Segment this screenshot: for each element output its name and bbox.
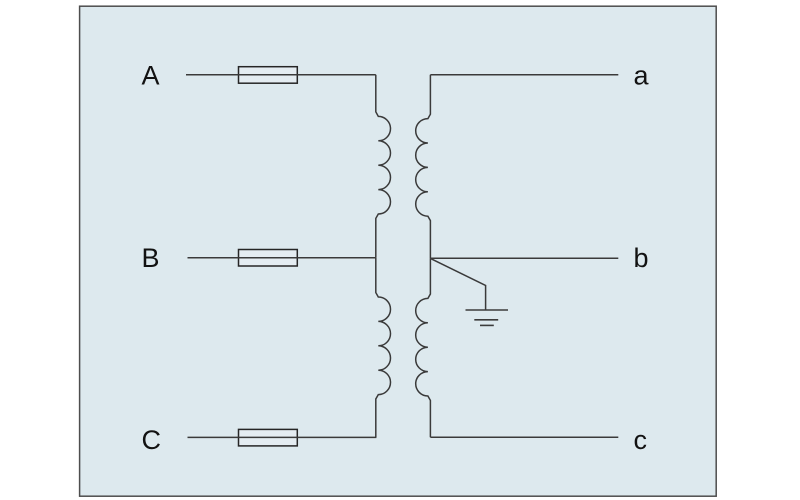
wire secondary top to node a: [430, 74, 618, 76]
wire secondary center tap to node b: [430, 257, 618, 259]
svg-text:A: A: [142, 60, 160, 90]
transformer primary winding, upper coil: [376, 75, 391, 258]
fuse F2: [239, 250, 298, 267]
wire center tap to ground lead: [430, 258, 485, 310]
wire secondary bottom to node c: [430, 436, 618, 438]
transformer primary winding, lower coil: [376, 258, 391, 438]
wire B to primary center tap: [188, 257, 376, 259]
svg-text:a: a: [634, 61, 650, 91]
wire A to primary top: [186, 74, 376, 76]
wire C to primary bottom: [188, 436, 377, 438]
ground: [466, 310, 509, 325]
transformer secondary winding, upper coil: [416, 75, 431, 259]
svg-text:C: C: [142, 425, 162, 455]
transformer secondary winding, lower coil: [416, 258, 431, 437]
svg-text:c: c: [634, 425, 648, 455]
fuse F1: [239, 67, 298, 84]
svg-text:B: B: [142, 243, 160, 273]
fuse F3: [239, 429, 298, 446]
svg-text:b: b: [634, 243, 649, 273]
